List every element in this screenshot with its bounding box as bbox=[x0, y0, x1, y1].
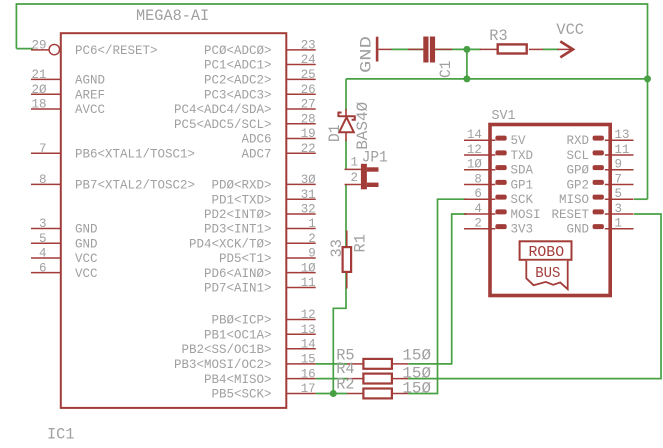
svg-text:VCC: VCC bbox=[75, 251, 98, 266]
pin 3 RESET line bbox=[605, 213, 634, 215]
pin 2 3V3 line bbox=[464, 228, 495, 230]
svg-text:PB6<XTAL1/TOSC1>: PB6<XTAL1/TOSC1> bbox=[75, 147, 195, 162]
pin 19 ADC6 stub bbox=[286, 138, 315, 140]
pin 10 PD6(AIN0) stub bbox=[286, 272, 315, 274]
ground pin bbox=[378, 48, 391, 50]
svg-text:GND: GND bbox=[357, 36, 375, 73]
svg-text:JP1: JP1 bbox=[362, 148, 388, 166]
jumper JP1 tab2 bbox=[367, 183, 379, 187]
svg-text:28: 28 bbox=[301, 112, 316, 127]
pin 2 PD4(XCK/T0) stub bbox=[286, 242, 315, 244]
resistor R3 body bbox=[498, 44, 527, 53]
svg-text:AREF: AREF bbox=[75, 87, 105, 102]
pin 22 ADC7 stub bbox=[286, 152, 315, 154]
pin 20 AREF stub bbox=[31, 93, 61, 95]
svg-text:3Ø: 3Ø bbox=[301, 172, 316, 187]
pin 17 PB5(SCK) stub bbox=[286, 393, 315, 395]
resistor R2 left pin bbox=[347, 393, 363, 395]
svg-text:PCØ<ADCØ>: PCØ<ADCØ> bbox=[204, 43, 272, 58]
svg-text:PC1<ADC1>: PC1<ADC1> bbox=[204, 58, 272, 73]
svg-text:1: 1 bbox=[351, 154, 359, 169]
svg-text:12: 12 bbox=[467, 142, 482, 157]
wire JP1 pin2 to R1 bbox=[345, 185, 347, 247]
svg-text:3V3: 3V3 bbox=[511, 222, 534, 237]
svg-text:19: 19 bbox=[301, 126, 316, 141]
resistor R2 right pin bbox=[392, 393, 408, 395]
svg-text:21: 21 bbox=[32, 67, 47, 82]
svg-text:MOSI: MOSI bbox=[511, 207, 541, 222]
svg-text:MISO: MISO bbox=[559, 192, 589, 207]
pin 14 5V line bbox=[464, 139, 495, 141]
resistor R3 left pin bbox=[480, 48, 497, 50]
pin 28 PC5(ADC5/SCL) stub bbox=[286, 123, 315, 125]
pin 4 MOSI line bbox=[464, 213, 495, 215]
wire PB5 to R2 bbox=[316, 393, 347, 395]
svg-text:15: 15 bbox=[301, 352, 316, 367]
pin 6 SCK pad bbox=[495, 195, 506, 200]
svg-text:GND: GND bbox=[567, 222, 590, 237]
svg-text:BUS: BUS bbox=[535, 266, 560, 282]
svg-text:1: 1 bbox=[308, 216, 316, 231]
svg-text:VCC: VCC bbox=[556, 21, 584, 39]
svg-text:PD6<AINØ>: PD6<AINØ> bbox=[204, 266, 272, 281]
connector SV1 box bbox=[490, 125, 610, 296]
pin 12 TXD line bbox=[464, 154, 495, 156]
wire MISO branch bbox=[634, 198, 648, 200]
svg-text:SCL: SCL bbox=[567, 148, 590, 163]
pin 26 PC3(ADC3) stub bbox=[286, 93, 315, 95]
svg-text:BAS4Ø: BAS4Ø bbox=[354, 101, 372, 149]
svg-text:4: 4 bbox=[39, 246, 47, 261]
pin 13 PB1(OC1A) stub bbox=[286, 333, 315, 335]
svg-text:PB1<OC1A>: PB1<OC1A> bbox=[204, 327, 272, 342]
svg-text:11: 11 bbox=[615, 142, 630, 157]
svg-text:6: 6 bbox=[39, 260, 47, 275]
pin 10 SDA pad bbox=[495, 165, 506, 170]
svg-text:ADC7: ADC7 bbox=[242, 147, 272, 162]
svg-text:AVCC: AVCC bbox=[75, 102, 105, 117]
svg-text:GPØ: GPØ bbox=[567, 163, 590, 178]
svg-text:SDA: SDA bbox=[511, 163, 534, 178]
svg-text:PB3<MOSI/OC2>: PB3<MOSI/OC2> bbox=[174, 357, 272, 372]
svg-text:8: 8 bbox=[474, 171, 482, 186]
pin 18 AVCC stub bbox=[31, 108, 61, 110]
svg-text:PD4<XCK/TØ>: PD4<XCK/TØ> bbox=[189, 237, 272, 252]
pin 4 MOSI pad bbox=[495, 209, 506, 214]
pin 2 3V3 pad bbox=[495, 224, 506, 229]
svg-text:TXD: TXD bbox=[511, 148, 534, 163]
svg-text:1Ø: 1Ø bbox=[467, 157, 482, 172]
svg-text:PD3<INT1>: PD3<INT1> bbox=[204, 222, 272, 237]
pin 8 GP1 pad bbox=[495, 180, 506, 185]
pin 11 SCL line bbox=[605, 154, 634, 156]
wire D1 top bbox=[345, 79, 347, 111]
svg-text:31: 31 bbox=[301, 187, 316, 202]
svg-text:2: 2 bbox=[351, 170, 359, 185]
svg-text:8: 8 bbox=[39, 172, 47, 187]
svg-text:PC6</RESET>: PC6</RESET> bbox=[75, 43, 158, 58]
svg-text:PC2<ADC2>: PC2<ADC2> bbox=[204, 73, 272, 88]
wire C1 to R3 segment bbox=[435, 48, 481, 50]
svg-text:GP2: GP2 bbox=[567, 177, 590, 192]
pin 12 PB0(ICP) stub bbox=[286, 319, 315, 321]
jumper JP1 pin2 bbox=[345, 184, 361, 186]
node BUS pennant bbox=[526, 261, 567, 289]
svg-text:14: 14 bbox=[301, 337, 316, 352]
svg-text:25: 25 bbox=[301, 67, 316, 82]
svg-text:17: 17 bbox=[301, 381, 316, 396]
svg-text:33: 33 bbox=[328, 239, 346, 257]
pin 12 TXD pad bbox=[495, 150, 506, 155]
svg-text:13: 13 bbox=[615, 127, 630, 142]
capacitor C1 plate2 bbox=[430, 37, 435, 63]
svg-text:IC1: IC1 bbox=[47, 426, 75, 444]
svg-text:27: 27 bbox=[301, 97, 316, 112]
svg-text:22: 22 bbox=[301, 141, 316, 156]
pin 7 GP2 line bbox=[605, 183, 634, 185]
resistor R5 right pin bbox=[392, 363, 408, 365]
wire GND to C1 segment bbox=[391, 48, 424, 50]
pin 14 5V pad bbox=[495, 136, 506, 141]
pin 10 SDA line bbox=[464, 169, 495, 171]
resistor R4 body bbox=[363, 374, 392, 384]
svg-text:15Ø: 15Ø bbox=[402, 346, 431, 364]
svg-text:PD2<INTØ>: PD2<INTØ> bbox=[204, 207, 272, 222]
pin 9 GP0 line bbox=[605, 169, 634, 171]
resistor R5 body bbox=[363, 359, 392, 369]
svg-text:ADC6: ADC6 bbox=[242, 132, 272, 147]
svg-text:SV1: SV1 bbox=[492, 108, 516, 124]
resistor R1 body bbox=[343, 247, 352, 272]
pin 6 SCK line bbox=[464, 198, 495, 200]
svg-text:2Ø: 2Ø bbox=[32, 82, 47, 97]
svg-text:11: 11 bbox=[301, 275, 316, 290]
diode D1 pin top bbox=[345, 109, 347, 116]
node junction pullup line bbox=[463, 75, 470, 82]
pin 4 VCC stub bbox=[31, 257, 61, 259]
pin 15 PB3(MOSI/OC2) stub bbox=[286, 363, 315, 365]
pin 3 RESET pad bbox=[593, 209, 604, 214]
svg-text:PDØ<RXD>: PDØ<RXD> bbox=[212, 178, 272, 193]
resistor R4 left pin bbox=[347, 378, 363, 380]
jumper JP1 pin1 bbox=[345, 168, 361, 170]
wire R1 to PB5 net bbox=[333, 273, 346, 394]
pin 32 PD2(INT0) stub bbox=[286, 213, 315, 215]
pin 5 MISO line bbox=[605, 198, 634, 200]
svg-text:PBØ<ICP>: PBØ<ICP> bbox=[212, 313, 272, 328]
svg-text:PD7<AIN1>: PD7<AIN1> bbox=[204, 281, 272, 296]
svg-text:VCC: VCC bbox=[75, 266, 98, 281]
svg-text:18: 18 bbox=[32, 97, 47, 112]
pin 21 AGND stub bbox=[31, 78, 61, 80]
svg-text:7: 7 bbox=[615, 171, 623, 186]
pin 1 PD3(INT1) stub bbox=[286, 228, 315, 230]
pin 27 PC4(ADC4/SDA) stub bbox=[286, 108, 315, 110]
resistor R1 pin bottom bbox=[346, 273, 348, 289]
pin 25 PC2(ADC2) stub bbox=[286, 78, 315, 80]
svg-text:R3: R3 bbox=[489, 27, 507, 45]
svg-text:29: 29 bbox=[32, 38, 47, 53]
svg-text:GP1: GP1 bbox=[511, 177, 534, 192]
pin 6 VCC stub bbox=[31, 272, 61, 274]
svg-text:6: 6 bbox=[474, 186, 482, 201]
wire VCC-pullup horizontal bbox=[346, 78, 648, 80]
pin 11 PD7(AIN1) stub bbox=[286, 287, 315, 289]
diode D1 cathode bar bbox=[338, 113, 355, 120]
wire PB4 to R4 bbox=[316, 378, 347, 380]
svg-text:1: 1 bbox=[615, 216, 623, 231]
capacitor C1 left pin bbox=[408, 48, 423, 50]
pin 7 PB6(XTAL1/TOSC1) stub bbox=[31, 152, 61, 154]
capacitor C1 plate1 bbox=[423, 37, 428, 63]
svg-text:C1: C1 bbox=[437, 61, 455, 79]
diode D1 triangle bbox=[339, 117, 354, 132]
svg-text:2: 2 bbox=[474, 216, 482, 231]
svg-text:SCK: SCK bbox=[511, 192, 534, 207]
svg-text:26: 26 bbox=[301, 82, 316, 97]
jumper JP1 tab1 bbox=[367, 167, 379, 171]
svg-text:13: 13 bbox=[301, 322, 316, 337]
op-amp IC1 MEGA8-AI box bbox=[61, 33, 286, 408]
wire RESET net top bbox=[16, 4, 647, 199]
resistor R1 pin top bbox=[346, 231, 348, 247]
pin 23 PC0(ADC0) stub bbox=[286, 49, 315, 51]
resistor R4 right pin bbox=[392, 378, 408, 380]
pin 30 PD0(RXD) stub bbox=[286, 183, 315, 185]
svg-text:3: 3 bbox=[39, 216, 47, 231]
node junction C1/R3 bbox=[463, 46, 470, 53]
jumper JP1 bar bbox=[361, 164, 367, 190]
svg-text:MEGA8-AI: MEGA8-AI bbox=[136, 7, 209, 25]
svg-text:PC4<ADC4/SDA>: PC4<ADC4/SDA> bbox=[174, 102, 272, 117]
wire C1 junction vertical bbox=[466, 49, 468, 79]
svg-text:PB2<SS/OC1B>: PB2<SS/OC1B> bbox=[182, 342, 272, 357]
svg-text:PB4<MISO>: PB4<MISO> bbox=[204, 372, 272, 387]
svg-text:R1: R1 bbox=[352, 234, 370, 252]
svg-text:24: 24 bbox=[301, 52, 316, 67]
resistor R2 body bbox=[363, 389, 392, 399]
svg-text:1Ø: 1Ø bbox=[301, 260, 316, 275]
svg-text:PB5<SCK>: PB5<SCK> bbox=[212, 387, 272, 402]
pin 8 PB7(XTAL2/TOSC2) stub bbox=[31, 183, 61, 185]
node junction PB5/R1 bbox=[330, 390, 337, 397]
pin 9 PD5(T1) stub bbox=[286, 257, 315, 259]
resistor R5 left pin bbox=[347, 363, 363, 365]
svg-text:7: 7 bbox=[39, 141, 47, 156]
svg-text:23: 23 bbox=[301, 38, 316, 53]
pin 8 GP1 line bbox=[464, 183, 495, 185]
svg-text:AGND: AGND bbox=[75, 73, 105, 88]
svg-text:5: 5 bbox=[615, 186, 623, 201]
svg-text:GND: GND bbox=[75, 222, 98, 237]
svg-text:3: 3 bbox=[615, 201, 623, 216]
pin 1 GND pad bbox=[593, 224, 604, 229]
pin 5 GND stub bbox=[31, 242, 61, 244]
pin 29 bubble bbox=[49, 44, 59, 54]
pin 16 PB4(MISO) stub bbox=[286, 378, 315, 380]
svg-text:RXD: RXD bbox=[567, 133, 590, 148]
pin 24 PC1(ADC1) stub bbox=[286, 64, 315, 66]
power VCC pin bbox=[558, 48, 572, 50]
wire R3 to VCC segment bbox=[543, 48, 560, 50]
wire R4 to SV1 RESET bbox=[408, 214, 661, 379]
svg-text:2: 2 bbox=[308, 231, 316, 246]
svg-text:15Ø: 15Ø bbox=[402, 379, 431, 397]
svg-text:9: 9 bbox=[615, 157, 623, 172]
wire pin29 to net bbox=[16, 48, 33, 50]
pin 3 GND stub bbox=[31, 228, 61, 230]
pin 7 GP2 pad bbox=[593, 180, 604, 185]
node junction right vertical bbox=[644, 75, 651, 82]
svg-text:5: 5 bbox=[39, 231, 47, 246]
power VCC arrow bbox=[560, 41, 573, 57]
svg-text:5V: 5V bbox=[511, 133, 526, 148]
svg-text:12: 12 bbox=[301, 307, 316, 322]
svg-text:PC3<ADC3>: PC3<ADC3> bbox=[204, 87, 272, 102]
capacitor C1 right pin bbox=[435, 48, 452, 50]
svg-text:PC5<ADC5/SCL>: PC5<ADC5/SCL> bbox=[174, 117, 272, 132]
pin 14 PB2(SS/OC1B) stub bbox=[286, 348, 315, 350]
resistor R3 right pin bbox=[529, 48, 543, 50]
svg-text:GND: GND bbox=[75, 237, 98, 252]
pin 9 GP0 pad bbox=[593, 165, 604, 170]
diode D1 pin bottom bbox=[345, 132, 347, 141]
pin 11 SCL pad bbox=[593, 150, 604, 155]
wire D1 to JP1 pin1 bbox=[345, 140, 347, 169]
svg-text:D1: D1 bbox=[326, 125, 344, 143]
pin 1 GND line bbox=[605, 228, 634, 230]
svg-text:PD5<T1>: PD5<T1> bbox=[219, 251, 272, 266]
svg-text:32: 32 bbox=[301, 202, 316, 217]
svg-text:RESET: RESET bbox=[552, 207, 590, 222]
pin 13 RXD pad bbox=[593, 136, 604, 141]
svg-text:R2: R2 bbox=[336, 375, 354, 393]
pin 13 RXD line bbox=[605, 139, 634, 141]
wire R2 to SV1 SCK bbox=[408, 199, 467, 393]
svg-text:PD1<TXD>: PD1<TXD> bbox=[212, 192, 272, 207]
wire PB3 to R5 bbox=[316, 363, 347, 365]
node ROBO label box bbox=[520, 241, 572, 259]
pin 5 MISO pad bbox=[593, 195, 604, 200]
ground GND symbol bar bbox=[376, 37, 379, 62]
svg-text:9: 9 bbox=[308, 246, 316, 261]
svg-text:14: 14 bbox=[467, 127, 482, 142]
svg-text:4: 4 bbox=[474, 201, 482, 216]
pin 29 PC6(/RESET) stub bbox=[31, 49, 49, 51]
svg-text:PB7<XTAL2/TOSC2>: PB7<XTAL2/TOSC2> bbox=[75, 178, 195, 193]
svg-text:16: 16 bbox=[301, 366, 316, 381]
svg-text:ROBO: ROBO bbox=[529, 245, 565, 261]
wire R5 to SV1 MOSI bbox=[408, 214, 467, 364]
pin 31 PD1(TXD) stub bbox=[286, 198, 315, 200]
